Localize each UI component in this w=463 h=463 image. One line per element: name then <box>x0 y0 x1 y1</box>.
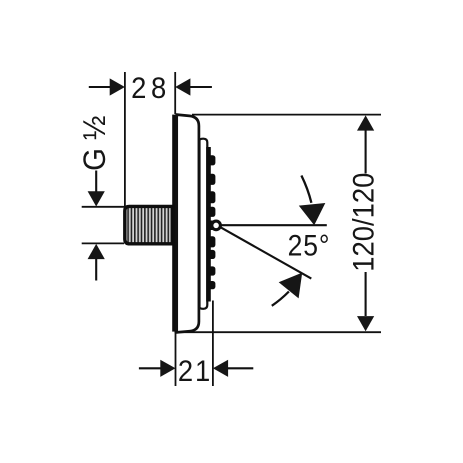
dimension 28: right arrow <box>175 78 212 95</box>
spray face plate <box>200 139 208 309</box>
swivel angle: horizontal reference line <box>221 224 327 226</box>
dimension 28: left extension line <box>124 72 126 207</box>
dimension G 1/2: upper arrow (points down) <box>88 171 105 207</box>
dimension 120/120: top arrow (points up) <box>357 115 374 173</box>
dimension G 1/2: lower arrow (points up) <box>88 244 105 281</box>
svg-text:28: 28 <box>131 72 171 105</box>
shower head back plate (wall flange, edge-on) <box>172 115 177 332</box>
dimension 28: left arrow <box>89 78 125 95</box>
svg-text:21: 21 <box>178 355 212 388</box>
dimension 120/120: bottom arrow (points down) <box>357 272 374 331</box>
dimension 21: left arrow <box>139 360 176 377</box>
nozzles (side-view bumps) <box>209 155 216 289</box>
svg-text:120/120: 120/120 <box>348 173 381 272</box>
dimension 21: right extension line <box>212 301 214 387</box>
threaded pipe G1/2 <box>125 206 173 243</box>
swivel angle: upper rotation arrow (points down) <box>299 176 326 226</box>
shower head body outline <box>177 115 199 333</box>
svg-text:25°: 25° <box>288 229 331 262</box>
dimension 120/120: bottom extension line <box>175 331 382 333</box>
dimension G 1/2: top extension line <box>82 206 125 208</box>
nozzle strip on spray face <box>206 147 211 302</box>
swivel angle: 25-degree line <box>221 227 312 278</box>
dimension 21: right arrow <box>213 360 253 377</box>
svg-text:G ½: G ½ <box>77 116 112 171</box>
swivel angle: lower rotation arrow (points up-right) <box>272 273 302 306</box>
dimension G 1/2: bottom extension line <box>82 242 124 244</box>
dimension 21: left extension line <box>175 333 177 386</box>
dimension 28: right extension line <box>174 72 176 114</box>
pivot knob (ball joint) <box>207 221 220 231</box>
dimension 120/120: top extension line <box>192 114 381 116</box>
